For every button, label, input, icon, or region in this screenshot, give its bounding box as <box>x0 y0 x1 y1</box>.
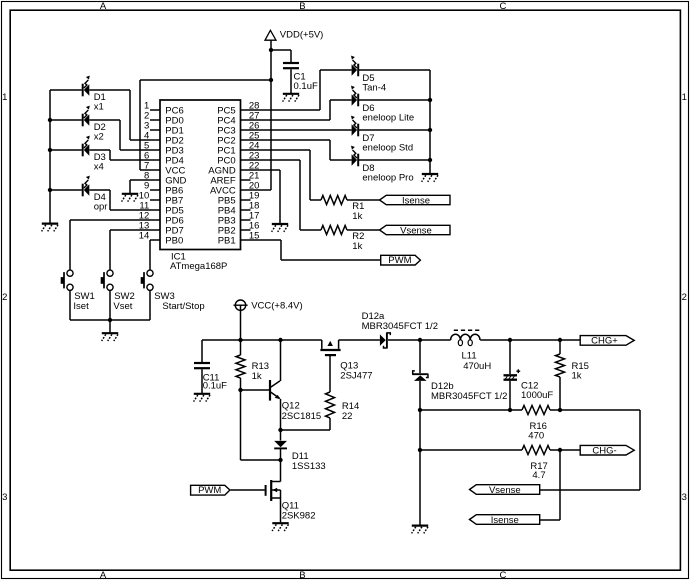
svg-text:x2: x2 <box>94 132 104 143</box>
svg-text:1: 1 <box>2 92 7 103</box>
svg-text:470uH: 470uH <box>463 361 491 372</box>
svg-text:2SK982: 2SK982 <box>282 511 316 522</box>
svg-text:PB1: PB1 <box>218 236 236 247</box>
svg-text:Vsense: Vsense <box>400 225 432 236</box>
svg-text:x1: x1 <box>94 102 104 113</box>
svg-text:2SC1815: 2SC1815 <box>282 411 322 422</box>
svg-text:A: A <box>100 570 107 580</box>
svg-text:eneloop Lite: eneloop Lite <box>362 112 414 123</box>
svg-text:2: 2 <box>682 292 687 303</box>
svg-text:1000uF: 1000uF <box>521 390 553 401</box>
svg-text:3: 3 <box>2 492 7 503</box>
svg-text:0.1uF: 0.1uF <box>294 81 318 92</box>
svg-text:PB0: PB0 <box>165 236 183 247</box>
svg-text:1SS133: 1SS133 <box>292 461 326 472</box>
svg-text:15: 15 <box>249 230 260 241</box>
svg-text:Isense: Isense <box>491 515 519 526</box>
svg-text:14: 14 <box>139 230 150 241</box>
svg-text:eneloop Std: eneloop Std <box>362 142 413 153</box>
svg-text:3: 3 <box>682 492 687 503</box>
svg-text:B: B <box>299 1 305 12</box>
svg-text:Start/Stop: Start/Stop <box>162 301 204 312</box>
svg-text:MBR3045FCT 1/2: MBR3045FCT 1/2 <box>431 391 507 402</box>
svg-text:B: B <box>299 570 305 580</box>
svg-text:1k: 1k <box>352 211 362 222</box>
svg-text:1k: 1k <box>252 371 262 382</box>
svg-text:0.1uF: 0.1uF <box>203 381 227 392</box>
svg-text:CHG+: CHG+ <box>591 336 618 347</box>
svg-text:470: 470 <box>528 430 544 441</box>
svg-text:x4: x4 <box>94 162 104 173</box>
svg-text:Vset: Vset <box>113 301 132 312</box>
svg-text:2SJ477: 2SJ477 <box>340 370 372 381</box>
svg-text:VDD(+5V): VDD(+5V) <box>280 30 324 41</box>
svg-text:MBR3045FCT 1/2: MBR3045FCT 1/2 <box>362 321 438 332</box>
svg-text:2: 2 <box>2 292 7 303</box>
svg-text:Vsense: Vsense <box>489 485 521 496</box>
svg-text:VCC(+8.4V): VCC(+8.4V) <box>251 300 302 311</box>
svg-text:22: 22 <box>342 411 353 422</box>
svg-text:Tan-4: Tan-4 <box>362 82 386 93</box>
svg-text:Iset: Iset <box>73 301 89 312</box>
svg-text:C: C <box>499 1 506 12</box>
svg-text:ATmega168P: ATmega168P <box>170 261 227 272</box>
svg-text:eneloop Pro: eneloop Pro <box>362 172 413 183</box>
svg-text:opr: opr <box>94 202 108 213</box>
svg-text:SW3: SW3 <box>154 291 175 302</box>
svg-text:PWM: PWM <box>388 255 411 266</box>
svg-text:1: 1 <box>682 92 687 103</box>
svg-text:A: A <box>100 1 107 12</box>
svg-text:CHG-: CHG- <box>592 445 616 456</box>
svg-text:1k: 1k <box>572 370 582 381</box>
svg-text:C: C <box>499 570 506 580</box>
svg-text:PWM: PWM <box>198 485 221 496</box>
svg-text:4.7: 4.7 <box>532 470 545 481</box>
svg-text:Isense: Isense <box>402 195 430 206</box>
svg-text:1k: 1k <box>352 241 362 252</box>
